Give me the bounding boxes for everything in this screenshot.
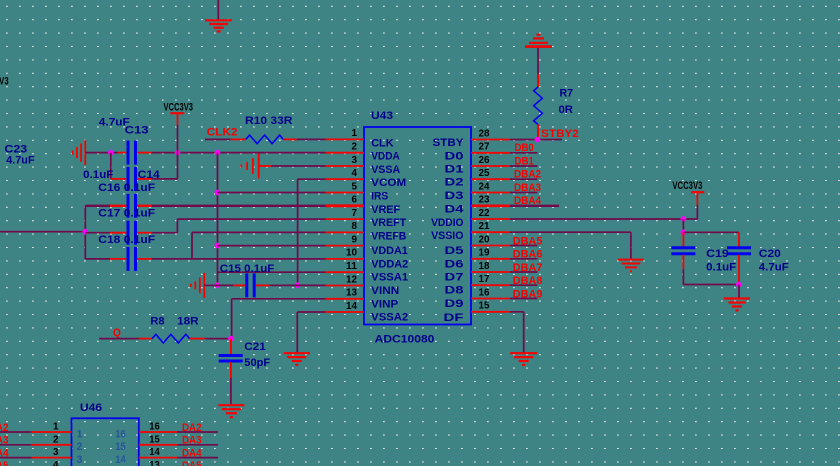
- svg-text:R10 33R: R10 33R: [245, 115, 293, 127]
- svg-text:U46: U46: [80, 402, 102, 414]
- junction R8/C21: [228, 336, 234, 342]
- junction VDDIO: [681, 216, 687, 222]
- svg-text:23: 23: [479, 195, 491, 206]
- net label DB1: [515, 155, 534, 167]
- wire VCC rail vertical: [217, 153, 219, 286]
- wire VSSA: [271, 165, 326, 167]
- capacitor C18: [128, 247, 136, 271]
- power symbol P2 (top right, bar stack): [525, 35, 552, 47]
- svg-text:U43: U43: [371, 110, 393, 122]
- svg-text:D3: D3: [445, 190, 464, 202]
- capacitor C14: [128, 167, 136, 191]
- svg-text:0.1uF: 0.1uF: [706, 262, 736, 274]
- wire pin4: [298, 178, 326, 180]
- svg-text:1: 1: [77, 428, 83, 440]
- svg-text:C19: C19: [706, 248, 729, 260]
- U43 right pin numbers 28-15: [479, 128, 491, 311]
- svg-text:VDDA1: VDDA1: [371, 245, 408, 257]
- svg-text:VINN: VINN: [371, 285, 399, 297]
- wire CLK2: [205, 138, 246, 140]
- U46 right pin wires: [139, 432, 218, 458]
- svg-text:DA2: DA2: [182, 422, 202, 434]
- label 0R: [559, 104, 574, 116]
- svg-text:15: 15: [149, 433, 160, 445]
- wire cap bank left rail: [84, 206, 86, 259]
- svg-text:VINP: VINP: [371, 298, 398, 310]
- junction on VCC row at C13 left: [108, 150, 114, 156]
- svg-text:2: 2: [77, 441, 83, 453]
- wire rail2 vertical: [297, 179, 299, 285]
- svg-text:DBA2: DBA2: [514, 169, 541, 181]
- label 50pF: [244, 357, 270, 369]
- svg-text:VDDA: VDDA: [371, 151, 400, 163]
- svg-text:15: 15: [115, 441, 126, 453]
- net label DBA5: [513, 235, 543, 247]
- ground G4 (C15): [191, 273, 205, 298]
- svg-text:DA5: DA5: [182, 460, 202, 466]
- label 4.7uF (C13): [99, 116, 130, 128]
- capacitor C16: [128, 194, 136, 218]
- wire pin8: [192, 231, 326, 233]
- svg-text:17: 17: [479, 274, 491, 285]
- svg-text:2: 2: [352, 142, 358, 153]
- label ADC10080: [375, 334, 435, 346]
- wires D5-D9 nets: [510, 246, 537, 299]
- svg-text:C16 0.1uF: C16 0.1uF: [98, 182, 155, 194]
- U46 right net labels DA2-DA5: [182, 422, 202, 466]
- wire C19/C20 top link: [683, 231, 739, 233]
- svg-text:16: 16: [115, 428, 126, 440]
- wire C21 to G6: [230, 362, 232, 404]
- wire C14 right to VCC junction: [137, 153, 177, 179]
- net label DBA4: [514, 195, 542, 207]
- svg-text:C18 0.1uF: C18 0.1uF: [98, 234, 155, 246]
- svg-text:R8: R8: [150, 315, 164, 327]
- svg-text:VDDA2: VDDA2: [371, 258, 408, 270]
- wire C18 left: [85, 258, 126, 260]
- wire pin9: [218, 245, 326, 247]
- svg-text:5: 5: [352, 181, 358, 192]
- ground G3 (VSSA): [241, 154, 271, 179]
- svg-text:VCC3V3: VCC3V3: [672, 180, 702, 192]
- wire Q: [99, 338, 152, 340]
- junction VCC rail: [215, 150, 221, 156]
- svg-text:DB1: DB1: [515, 155, 534, 167]
- label R8: [150, 315, 164, 327]
- svg-text:3: 3: [352, 155, 358, 166]
- svg-text:VCOM: VCOM: [371, 177, 406, 189]
- label U43: [371, 110, 393, 122]
- svg-text:DBA7: DBA7: [513, 262, 543, 274]
- svg-text:0R: 0R: [559, 104, 574, 116]
- svg-text:24: 24: [479, 181, 491, 192]
- svg-text:D9: D9: [445, 298, 464, 310]
- capacitor C17: [128, 221, 136, 245]
- ground G3b (VSSIO): [618, 260, 644, 272]
- wire G2 to C13: [85, 152, 126, 154]
- wire C20 bottom: [738, 255, 740, 285]
- U46 left net labels (cut): [0, 422, 9, 466]
- U43 left pin numbers 1-14: [346, 128, 358, 312]
- svg-text:DA4: DA4: [182, 447, 202, 459]
- wire pin8 drop: [191, 232, 193, 259]
- svg-text:DA3: DA3: [182, 435, 202, 447]
- capacitor C21: [219, 356, 243, 362]
- svg-text:CLK2: CLK2: [207, 127, 238, 139]
- svg-text:D8: D8: [445, 285, 464, 297]
- svg-text:DBA5: DBA5: [513, 235, 543, 247]
- wire P2 to R7: [537, 48, 539, 87]
- ground G2 (left, VCC row cap bank): [73, 140, 86, 165]
- label C18 0.1uF: [98, 234, 155, 246]
- svg-text:VREF: VREF: [371, 204, 400, 216]
- svg-text:13: 13: [346, 288, 358, 299]
- svg-text:10: 10: [346, 248, 358, 259]
- U46 left pin numbers: [53, 421, 59, 466]
- label C14: [138, 169, 161, 181]
- wire G4 to C15: [204, 284, 245, 286]
- svg-text:Q: Q: [113, 327, 121, 339]
- svg-text:D6: D6: [445, 258, 464, 270]
- svg-text:VSSA: VSSA: [371, 164, 400, 176]
- svg-text:3: 3: [53, 446, 59, 458]
- wires D0-D3 nets: [510, 153, 537, 193]
- junction rail pin5: [215, 190, 221, 196]
- svg-text:14: 14: [346, 301, 358, 312]
- svg-text:14: 14: [115, 454, 126, 466]
- svg-text:27: 27: [479, 142, 491, 153]
- power symbol P1 VCC3V3: [170, 112, 184, 114]
- svg-text:VSSA1: VSSA1: [371, 272, 408, 284]
- U43 left pin stubs: [326, 139, 364, 312]
- svg-text:18R: 18R: [177, 315, 199, 327]
- svg-text:D0: D0: [445, 150, 464, 162]
- svg-text:16: 16: [479, 287, 491, 298]
- label 4.7uF (C20): [759, 262, 789, 274]
- label R7: [560, 88, 574, 100]
- label C19: [706, 248, 729, 260]
- junction left rail: [83, 229, 89, 235]
- junction STBY2: [535, 137, 541, 143]
- svg-text:VSSA2: VSSA2: [371, 312, 408, 324]
- junction rail pin9: [215, 243, 221, 249]
- svg-text:3: 3: [77, 454, 83, 466]
- wire VREF C16 to pin6: [137, 205, 326, 207]
- U46 right pin numbers: [149, 421, 160, 466]
- svg-text:4: 4: [352, 168, 358, 179]
- net label DBA2: [514, 169, 541, 181]
- svg-text:VCC3V3: VCC3V3: [164, 101, 194, 113]
- label 0.1uF (C19): [706, 262, 736, 274]
- svg-text:STBY2: STBY2: [541, 128, 579, 140]
- net label Q: [113, 327, 121, 339]
- label VCC3V3 (P3): [672, 180, 702, 192]
- label 18R: [177, 315, 199, 327]
- IC U43 (ADC10080) box: [364, 127, 471, 325]
- svg-text:DBA9: DBA9: [513, 289, 543, 301]
- wire R7 to STBY2 node: [537, 125, 539, 140]
- wire P1 stem: [177, 114, 179, 153]
- label C16 0.1uF: [98, 182, 155, 194]
- svg-text:DBA6: DBA6: [513, 249, 543, 261]
- svg-text:STBY: STBY: [433, 137, 465, 149]
- net label DBA6: [513, 249, 543, 261]
- connector U46 box: [72, 418, 139, 466]
- svg-text:R7: R7: [560, 88, 574, 100]
- svg-text:VDDIO: VDDIO: [431, 217, 464, 229]
- ground G8 (C20): [724, 299, 750, 311]
- svg-text:21: 21: [479, 221, 491, 232]
- wire to top ground: [217, 0, 219, 20]
- svg-text:18: 18: [479, 261, 491, 272]
- svg-text:DF: DF: [444, 312, 464, 324]
- label C15 0.1uF: [220, 263, 275, 275]
- junction C20 bottom: [736, 282, 742, 288]
- wire R10 to pin1: [283, 138, 326, 140]
- U43 right pin stubs: [471, 140, 510, 312]
- svg-text:ADC10080: ADC10080: [375, 334, 435, 346]
- svg-text:IRS: IRS: [371, 191, 388, 203]
- svg-text:DA3: DA3: [0, 435, 9, 447]
- wire C18 row to pin10: [137, 258, 326, 260]
- label V3 fragment: [0, 76, 9, 88]
- svg-text:15: 15: [479, 301, 491, 312]
- svg-text:1: 1: [53, 421, 59, 433]
- label R10 33R: [245, 115, 293, 127]
- svg-text:14: 14: [149, 446, 160, 458]
- wire VDDIO drop: [682, 219, 684, 232]
- svg-text:DBA8: DBA8: [513, 275, 543, 287]
- svg-text:DA5: DA5: [0, 460, 9, 466]
- svg-text:VREFB: VREFB: [371, 230, 406, 242]
- svg-text:D2: D2: [445, 177, 464, 189]
- svg-text:4.7uF: 4.7uF: [6, 155, 35, 167]
- svg-text:DA2: DA2: [0, 422, 9, 434]
- svg-text:D4: D4: [445, 203, 465, 215]
- svg-text:22: 22: [479, 208, 491, 219]
- U46 left pin wires: [0, 432, 72, 458]
- wire pin11: [218, 271, 326, 273]
- capacitor C15: [247, 273, 254, 297]
- svg-text:D5: D5: [445, 245, 464, 257]
- net label CLK2: [207, 127, 238, 139]
- ground G7 (pin15): [510, 353, 537, 365]
- wire to G8: [738, 285, 740, 298]
- wire C19/C20 bottom link: [683, 284, 739, 286]
- resistor R8: [152, 334, 190, 343]
- net label DBA9: [513, 289, 543, 301]
- svg-text:DB0: DB0: [515, 142, 534, 154]
- svg-text:50pF: 50pF: [244, 357, 270, 369]
- junction VCC stem: [175, 150, 181, 156]
- svg-text:26: 26: [479, 155, 491, 166]
- net label DBA8: [513, 275, 543, 287]
- label VCC3V3 (P1): [164, 101, 194, 113]
- U43 right pin labels: [431, 137, 465, 324]
- svg-text:19: 19: [479, 248, 491, 259]
- wire C13 to VCC junctions: [137, 152, 326, 154]
- svg-text:7: 7: [352, 208, 358, 219]
- svg-text:4: 4: [53, 459, 59, 466]
- svg-text:6: 6: [352, 195, 358, 206]
- wire pin7: [177, 218, 325, 220]
- svg-text:CLK: CLK: [371, 137, 393, 149]
- wire branch to C14 left: [111, 153, 127, 179]
- capacitor C13: [128, 141, 136, 165]
- svg-text:20: 20: [479, 234, 491, 245]
- U43 left pin labels: [371, 137, 408, 323]
- power symbol P3 VCC3V3: [691, 191, 704, 193]
- wire C17 to pin7 riser: [137, 219, 177, 233]
- wire C19 bottom: [682, 255, 684, 285]
- net label DBA7: [513, 262, 543, 274]
- label C20: [759, 248, 781, 260]
- svg-text:0.1uF: 0.1uF: [83, 169, 113, 181]
- label C23: [4, 144, 27, 156]
- label U46: [80, 402, 102, 414]
- U46 inside pin numbers: [77, 428, 127, 466]
- svg-text:DA4: DA4: [0, 447, 9, 459]
- svg-text:D7: D7: [445, 272, 464, 284]
- net label DBA3: [514, 182, 541, 194]
- capacitor C20: [727, 248, 751, 254]
- svg-text:13: 13: [149, 459, 160, 466]
- svg-text:9: 9: [352, 234, 358, 245]
- net label STBY2: [541, 128, 579, 140]
- svg-text:12: 12: [346, 274, 358, 285]
- svg-text:1: 1: [352, 128, 358, 139]
- svg-text:VREFT: VREFT: [371, 217, 406, 229]
- wire P3 stem: [696, 193, 698, 219]
- label 4.7uF (C23): [6, 155, 35, 167]
- wire VSSIO: [510, 232, 631, 259]
- label C13: [125, 124, 149, 136]
- junction rail C15 row: [215, 282, 221, 288]
- svg-text:C21: C21: [244, 341, 265, 353]
- wire STBY2 row: [510, 139, 562, 141]
- svg-text:25: 25: [479, 168, 491, 179]
- wire pin5: [218, 192, 326, 194]
- svg-text:C13: C13: [125, 124, 149, 136]
- svg-text:8: 8: [352, 221, 358, 232]
- resistor R10: [246, 135, 283, 144]
- svg-text:C15 0.1uF: C15 0.1uF: [220, 263, 275, 275]
- wire into C19: [682, 232, 684, 247]
- resistor R7: [534, 87, 543, 125]
- label C21: [244, 341, 265, 353]
- svg-text:VCC3V3: VCC3V3: [0, 76, 9, 88]
- svg-text:11: 11: [346, 261, 358, 272]
- svg-text:16: 16: [149, 421, 160, 433]
- junction C19 top: [681, 230, 687, 236]
- wire pin13: [232, 299, 326, 339]
- wire C17 left: [85, 232, 126, 234]
- svg-text:4.7uF: 4.7uF: [759, 262, 789, 274]
- wire DF net (pin15): [510, 312, 524, 353]
- svg-text:C20: C20: [759, 248, 781, 260]
- capacitor C19: [671, 248, 695, 254]
- svg-text:DBA3: DBA3: [514, 182, 541, 194]
- wire junction to C21: [230, 339, 232, 355]
- junction rail2 C15 row: [295, 282, 301, 288]
- wire DBA4 net (pin23): [510, 205, 559, 207]
- wire to left edge: [0, 231, 85, 233]
- wire VDDIO row: [510, 218, 697, 220]
- wire C15 to pin12: [256, 284, 326, 286]
- label C17 0.1uF: [98, 208, 155, 220]
- svg-text:VSSIO: VSSIO: [431, 230, 464, 242]
- svg-text:2: 2: [53, 433, 59, 445]
- net label DB0: [515, 142, 534, 154]
- ground G1 (top): [205, 20, 232, 31]
- svg-text:28: 28: [479, 128, 491, 139]
- svg-text:C17 0.1uF: C17 0.1uF: [98, 208, 155, 220]
- ground G5 (VSSA2): [284, 353, 310, 365]
- ground G6 (C21): [218, 405, 244, 417]
- wire R8 to junction: [190, 338, 232, 340]
- wire into C20: [738, 232, 740, 247]
- label 0.1uF (C14): [83, 169, 113, 181]
- wire pin14: [297, 312, 326, 353]
- svg-text:D1: D1: [445, 164, 464, 176]
- wire VREF left rail to C16: [85, 205, 126, 207]
